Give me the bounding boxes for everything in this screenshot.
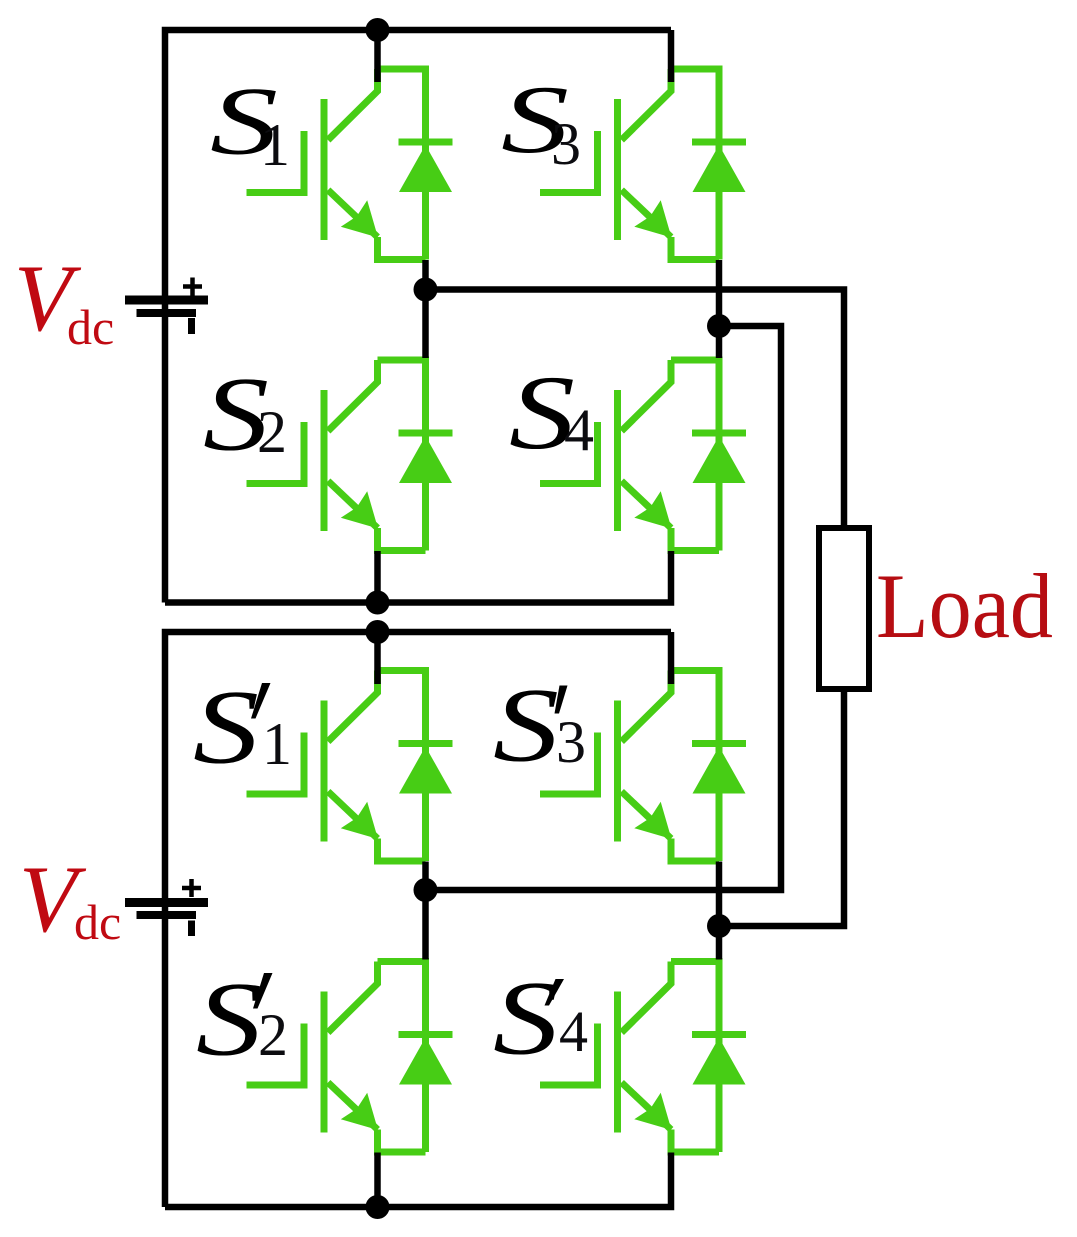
svg-text:4: 4 xyxy=(564,397,594,463)
junction node on top rail of bridge 2 xyxy=(366,620,390,644)
junction node B (bridge 1 output B) xyxy=(707,314,731,338)
svg-text:3: 3 xyxy=(556,709,586,775)
wire: S1' top stub xyxy=(374,632,381,684)
battery V1 plus sign xyxy=(183,278,202,296)
label S2' xyxy=(196,961,288,1078)
wire: bridge 2 bottom rail with S4' bottom stub xyxy=(165,1153,671,1208)
svg-text:S: S xyxy=(196,961,262,1078)
wire: leg B' middle (S3' bottom to S4' top) xyxy=(716,862,723,960)
label Vdc (battery 2) xyxy=(19,846,121,952)
junction node on top rail of bridge 1 xyxy=(366,18,390,42)
wire: load bottom to output B of bridge 2 xyxy=(719,689,844,926)
wire: top rail of bridge 2 with left wire down to battery 2 and beyond xyxy=(165,632,671,1207)
label S3 xyxy=(501,66,581,177)
IGBT S4 with antiparallel diode xyxy=(540,360,746,551)
IGBT S3' with antiparallel diode xyxy=(540,671,746,862)
svg-text:S: S xyxy=(493,667,559,784)
IGBT S1 with antiparallel diode xyxy=(247,69,453,260)
label S3' xyxy=(493,667,586,784)
wire: bridge 1 bottom rail with S4 bottom stub xyxy=(165,551,671,603)
svg-text:2: 2 xyxy=(257,399,287,465)
IGBT S1' with antiparallel diode xyxy=(247,671,453,862)
svg-text:3: 3 xyxy=(551,111,581,177)
label S4 xyxy=(509,354,594,471)
svg-text:4: 4 xyxy=(559,999,588,1064)
battery V1 plates xyxy=(125,300,208,313)
battery V2 minus tick xyxy=(188,921,195,937)
label Vdc (battery 1) xyxy=(14,245,114,355)
svg-text:dc: dc xyxy=(74,894,121,950)
svg-text:1: 1 xyxy=(262,711,292,777)
battery V1 minus tick xyxy=(188,318,195,334)
load resistor xyxy=(819,528,869,689)
junction node B' (bridge 2 output B) xyxy=(707,914,731,938)
wire: S3' top stub xyxy=(668,632,675,684)
svg-text:dc: dc xyxy=(67,299,114,355)
wire: output B of bridge 1 down to output A of bridge 2 xyxy=(426,326,782,890)
IGBT S4' with antiparallel diode xyxy=(540,962,746,1153)
wire: top rail of bridge 1 with left wire down to battery 1 and beyond xyxy=(165,30,671,603)
label S2 xyxy=(203,356,287,473)
svg-text:S: S xyxy=(193,669,259,786)
wire: leg A middle (S1 bottom to S2 top) xyxy=(422,260,429,358)
svg-text:1: 1 xyxy=(260,112,290,178)
label S1' xyxy=(193,669,292,786)
junction node on bottom rail of bridge 1 xyxy=(366,591,390,615)
IGBT S2 with antiparallel diode xyxy=(247,360,453,551)
wire: leg B middle (S3 bottom to S4 top) xyxy=(716,260,723,358)
battery V2 plus sign xyxy=(182,879,201,897)
IGBT S2' with antiparallel diode xyxy=(247,962,453,1153)
wire: S2 bottom stub xyxy=(374,551,381,603)
battery V2 plates xyxy=(125,903,208,916)
junction node A' (bridge 2 output A) xyxy=(414,878,438,902)
svg-text:S: S xyxy=(493,960,559,1077)
wire: S3 top stub xyxy=(668,30,675,82)
wire: S1 top stub xyxy=(374,30,381,82)
IGBT S3 with antiparallel diode xyxy=(540,69,746,260)
junction node A (bridge 1 output A) xyxy=(414,278,438,302)
label S1 xyxy=(210,68,290,179)
svg-text:Load: Load xyxy=(876,555,1053,657)
svg-text:2: 2 xyxy=(258,1002,288,1068)
wire: leg A' middle (S1' bottom to S2' top) xyxy=(422,862,429,960)
wire: S2' bottom stub xyxy=(374,1153,381,1208)
label S4' xyxy=(493,960,588,1077)
wire: output A of bridge 1 to load top xyxy=(426,290,845,529)
junction node on bottom rail of bridge 2 xyxy=(366,1195,390,1219)
